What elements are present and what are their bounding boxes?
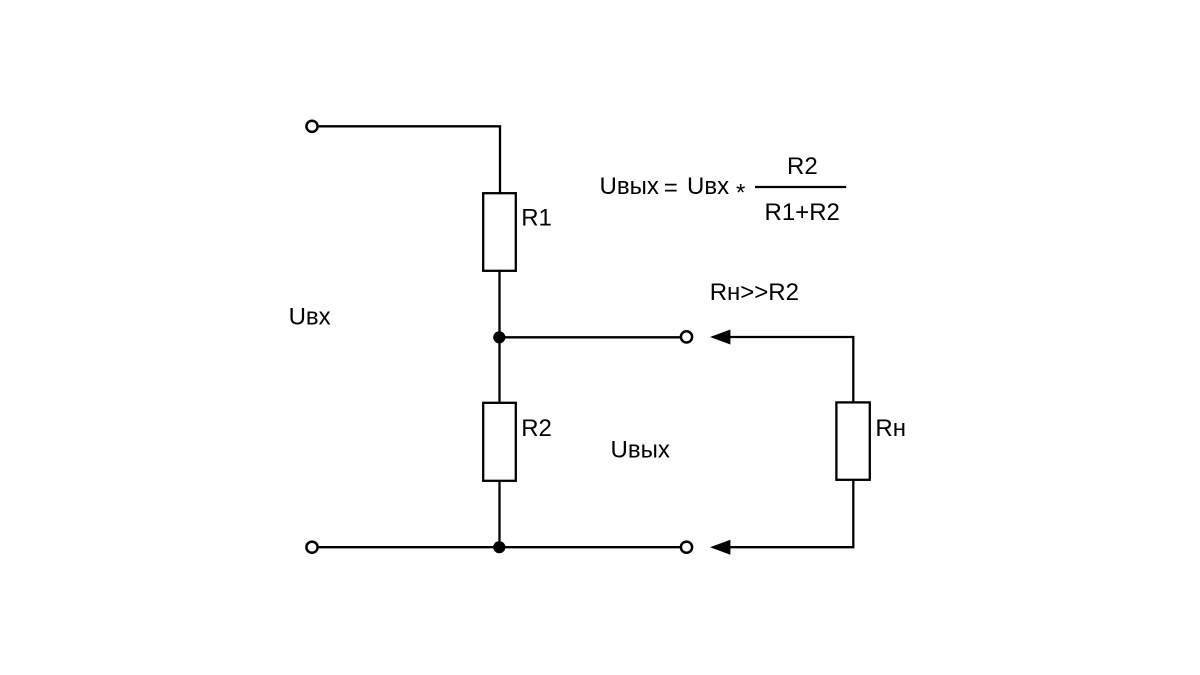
svg-text:R2: R2: [521, 415, 552, 442]
svg-text:*: *: [736, 180, 745, 207]
svg-text:Uвых: Uвых: [600, 173, 659, 200]
arrow into output top: [710, 330, 730, 345]
resistor Rн: [836, 402, 869, 479]
resistor R2: [483, 403, 516, 481]
arrow into output bottom: [710, 540, 730, 555]
output terminal top (open circle): [681, 331, 692, 342]
svg-text:Rн>>R2: Rн>>R2: [710, 279, 799, 306]
svg-text:Uвх: Uвх: [289, 304, 331, 331]
formula fraction bar: [755, 186, 846, 188]
wire bottom rail: [319, 546, 681, 548]
node A junction dot: [493, 331, 505, 343]
wire node to R2: [498, 337, 500, 403]
wire node to output terminal top: [499, 336, 680, 338]
input terminal bottom (open circle): [306, 542, 317, 553]
svg-text:Uвых: Uвых: [611, 436, 670, 463]
wire R1 to node: [498, 271, 500, 338]
svg-text:R2: R2: [787, 153, 818, 180]
resistor R1: [483, 193, 516, 271]
output terminal bottom (open circle): [681, 542, 692, 553]
svg-text:R1+R2: R1+R2: [765, 199, 840, 226]
svg-text:Uвх: Uвх: [687, 173, 729, 200]
wire R2 to bottom node: [498, 481, 500, 547]
svg-text:R1: R1: [521, 205, 552, 232]
input terminal top (open circle): [306, 121, 317, 132]
wire Rн to bottom: [730, 480, 854, 547]
svg-text:=: =: [664, 174, 678, 201]
svg-text:Rн: Rн: [875, 415, 906, 442]
wire arrow top to Rн: [730, 337, 854, 402]
wire top rail: [319, 126, 500, 193]
node B junction dot: [493, 541, 505, 553]
